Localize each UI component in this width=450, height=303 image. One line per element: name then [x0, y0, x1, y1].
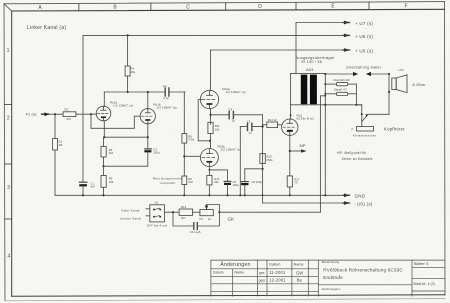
headphone jack P1 Klinkenstecker — [352, 126, 406, 137]
triode V2 (Rö1b 1/2 12BH7) — [140, 102, 177, 123]
net GK feedback line — [219, 212, 320, 221]
triode V3 (Rö2 1/2 12BH7) — [200, 87, 245, 109]
svg-text:Umschaltung Kabel: Umschaltung Kabel — [346, 65, 381, 69]
wire V3b grid — [184, 155, 200, 157]
node V1 cathode junction — [103, 136, 105, 138]
triode V1 (Rö1a 1/2 12BH7) — [96, 100, 133, 120]
svg-text:C2: C2 — [163, 84, 167, 88]
svg-text:Rest Komponenten: Rest Komponenten — [153, 176, 182, 180]
wire V3b cathode to R10 — [208, 166, 210, 175]
svg-text:Strom an Kontakte: Strom an Kontakte — [342, 157, 373, 161]
svg-text:+ U5 (s): + U5 (s) — [355, 49, 373, 54]
column labels A-F — [38, 3, 407, 10]
node attenuator junction — [355, 104, 357, 106]
svg-text:100µ: 100µ — [153, 151, 160, 155]
node V3b grid junction — [183, 155, 185, 157]
node R9 gnd junction — [183, 194, 185, 196]
svg-text:1k8: 1k8 — [109, 180, 114, 184]
svg-text:2: 2 — [7, 116, 10, 122]
node speaker bottom junction — [388, 91, 390, 93]
svg-text:LS1: LS1 — [399, 68, 405, 72]
wire R8 to grid node — [183, 143, 185, 176]
svg-text:Ba: Ba — [297, 278, 303, 283]
svg-text:75: 75 — [294, 181, 298, 185]
svg-text:270k: 270k — [188, 138, 195, 142]
wire C5 left to GND — [239, 127, 241, 196]
wire V2 cathode — [147, 124, 149, 138]
svg-text:Name: Name — [294, 262, 304, 266]
svg-text:1/2 12BH7 (a): 1/2 12BH7 (a) — [113, 104, 133, 108]
svg-text:1M: 1M — [59, 143, 64, 147]
svg-text:11-2001: 11-2001 — [269, 270, 286, 275]
node V3 cathode tap — [209, 114, 211, 116]
resistor R17 cathode — [287, 176, 300, 187]
svg-text:4: 4 — [8, 254, 11, 260]
title block texts — [213, 260, 435, 291]
wire V1 anode — [103, 92, 105, 107]
wire R17 to GND — [289, 187, 291, 195]
column ticks — [79, 2, 369, 11]
wire jack tip feed — [356, 105, 361, 127]
svg-text:C5: C5 — [247, 119, 251, 123]
svg-text:100µ: 100µ — [233, 183, 240, 187]
node secondary bottom junction — [324, 104, 326, 106]
svg-text:Name: Name — [235, 271, 245, 275]
capacitor C6 bypass — [224, 180, 239, 196]
svg-text:C: C — [186, 4, 190, 10]
svg-text:linker Kanal: linker Kanal — [121, 208, 140, 212]
wire anode bus — [104, 91, 165, 93]
note HP Messpunkt — [337, 151, 373, 161]
svg-text:P: P — [352, 127, 354, 131]
svg-text:GK: GK — [228, 217, 236, 222]
row ticks — [4, 105, 11, 220]
capacitor C8 — [241, 169, 262, 197]
svg-text:1/2 12BH7 (s): 1/2 12BH7 (s) — [221, 148, 241, 152]
svg-text:Endstufe: Endstufe — [323, 275, 343, 280]
switch line Umschaltung — [325, 65, 389, 76]
node R17 gnd junction — [289, 194, 291, 196]
svg-text:4µ7: 4µ7 — [91, 185, 96, 189]
capacitor C11 parallel — [173, 212, 219, 234]
svg-text:2k2: 2k2 — [214, 180, 219, 184]
svg-text:Klinkenstecker: Klinkenstecker — [353, 134, 376, 138]
svg-text:gepr.: gepr. — [259, 278, 267, 282]
resistor R11 cathode — [208, 122, 220, 133]
resistor R9 grid leak lower — [182, 176, 193, 185]
resistor R8 grid leak upper — [182, 134, 195, 144]
wire R3 leads — [103, 137, 105, 166]
svg-text:+ U7 (s): + U7 (s) — [355, 21, 373, 26]
svg-text:Blatt-Nr. 4 (2): Blatt-Nr. 4 (2) — [414, 282, 435, 286]
svg-text:Änderungen: Änderungen — [220, 261, 250, 268]
svg-text:rechter Kanal: rechter Kanal — [120, 217, 141, 221]
svg-text:F: F — [404, 3, 407, 9]
node cathode MP junction — [289, 150, 291, 152]
resistor R19 secondary — [325, 88, 356, 96]
transformer AÜ1 — [291, 73, 362, 104]
triode V4 (Rö3 6C33c-B) — [282, 113, 314, 135]
svg-text:150k: 150k — [267, 158, 274, 162]
triode V3b (Rö2b 1/2 12BH7 SRPP) — [200, 144, 240, 166]
svg-text:2k2: 2k2 — [215, 127, 220, 131]
svg-text:Blätter: 5: Blätter: 5 — [414, 262, 428, 266]
resistor R14 grid stopper — [263, 118, 282, 127]
resistor R3 cathode V1 — [101, 146, 114, 157]
resistor R12 feedback — [179, 205, 193, 220]
node R15 bottom junction — [262, 168, 264, 170]
svg-text:R2: R2 — [65, 108, 69, 112]
node V2 cathode junction — [147, 136, 149, 138]
wire S1 to R12 — [164, 211, 179, 213]
title block grid — [211, 260, 445, 296]
svg-text:4k7: 4k7 — [181, 216, 186, 220]
svg-text:+ U6 (s): + U6 (s) — [355, 34, 373, 39]
svg-text:Datum: Datum — [269, 262, 280, 266]
node secondary gnd junction — [324, 194, 326, 196]
transformer AÜ1 labels — [296, 55, 336, 72]
wire speaker return — [388, 92, 390, 114]
svg-text:Dämpf. 4,7: Dämpf. 4,7 — [334, 88, 348, 92]
resistor R5 — [101, 175, 114, 187]
capacitor C3 cathode bypass — [144, 137, 159, 166]
wire V3 cathode signal out — [211, 114, 230, 116]
resistor R10 — [207, 175, 220, 185]
svg-text:gez.: gez. — [259, 271, 265, 275]
svg-text:P1: P1 — [200, 217, 204, 221]
wire S1 stubs — [146, 209, 150, 216]
wire C8 branch — [245, 168, 263, 170]
node feedback junction left — [172, 211, 174, 213]
svg-text:EI 130 / 46: EI 130 / 46 — [302, 60, 323, 64]
wire V3 anode to U5 — [210, 50, 212, 91]
svg-text:Ausgangsübertrager: Ausgangsübertrager — [296, 55, 336, 60]
switch S1 DIP — [147, 200, 168, 227]
wire R5 leads — [103, 166, 105, 195]
net +U6 rail — [83, 34, 373, 39]
measure point MP arrow — [290, 143, 307, 153]
svg-text:MP: MP — [300, 143, 306, 148]
wire V3a grid to SRPP midpoint — [198, 100, 210, 141]
svg-text:D: D — [258, 4, 262, 10]
svg-text:GW: GW — [296, 271, 303, 276]
resistor R18 secondary — [325, 78, 356, 86]
resistor R1 — [53, 114, 63, 195]
svg-text:C4: C4 — [229, 107, 233, 111]
svg-text:Linker Kanal (a): Linker Kanal (a) — [27, 25, 66, 31]
svg-text:1µ: 1µ — [249, 130, 253, 134]
svg-text:F1 (a): F1 (a) — [26, 112, 37, 116]
wire V1 cathode — [103, 121, 105, 137]
svg-text:Zeichnungsnr.: Zeichnungsnr. — [322, 287, 341, 291]
wire U6 rail left drop — [82, 35, 84, 181]
svg-text:1: 1 — [7, 48, 10, 54]
wire cathode bus — [104, 136, 148, 138]
svg-text:GND: GND — [355, 194, 366, 199]
wire R10 to GND — [208, 185, 210, 195]
svg-text:DIP Sw 4 pol: DIP Sw 4 pol — [147, 224, 168, 228]
resistor R4 anode load — [125, 34, 136, 93]
node SRPP midpoint junction — [209, 140, 211, 142]
svg-text:0,1µ: 0,1µ — [163, 96, 169, 100]
node feedback junction right — [218, 211, 220, 213]
wire secondary gnd drop — [324, 105, 326, 196]
wire feedback GK drop — [320, 96, 325, 212]
node speaker top junction — [388, 73, 390, 75]
svg-text:46k: 46k — [131, 70, 136, 74]
svg-text:Bezeichnung: Bezeichnung — [322, 260, 340, 264]
wire C2 to R8 — [183, 92, 185, 134]
wire V4 anode — [290, 105, 292, 119]
note kanal labels — [120, 208, 141, 220]
potentiometer P1 — [200, 205, 220, 222]
wire bypass branch — [209, 170, 227, 181]
svg-text:C8 100µ: C8 100µ — [252, 180, 263, 184]
node secondary tap junctions — [324, 83, 326, 85]
svg-text:- U01 (s): - U01 (s) — [354, 201, 373, 206]
node gnd crossing blob — [262, 194, 264, 196]
capacitor C2 coupling — [163, 84, 185, 100]
svg-text:C11 1µ5: C11 1µ5 — [190, 230, 201, 234]
wire speaker leads — [388, 74, 390, 92]
capacitor C4 coupling — [229, 107, 263, 122]
corner diagonal — [4, 4, 12, 11]
svg-text:3: 3 — [7, 185, 10, 191]
net +U5 rail — [211, 48, 374, 53]
svg-text:Datum: Datum — [213, 271, 224, 275]
node grid node junction — [262, 125, 264, 127]
svg-text:2k2: 2k2 — [188, 180, 193, 184]
svg-text:Kopfhörer: Kopfhörer — [384, 126, 405, 131]
capacitor C5 — [247, 119, 263, 134]
svg-text:8 Ohm: 8 Ohm — [413, 82, 426, 87]
jack switch arm — [361, 113, 389, 121]
node C1 gnd junction — [82, 194, 84, 196]
node C5 gnd junction — [239, 194, 241, 196]
node R5 gnd junction — [102, 194, 104, 196]
node V1 grid junction — [90, 113, 92, 115]
svg-text:2k2: 2k2 — [109, 151, 114, 155]
wire U7 to transformer primary — [295, 23, 297, 74]
svg-text:12-2001: 12-2001 — [269, 278, 286, 283]
resistor R2 — [63, 108, 76, 121]
node cathode bypass junction — [209, 169, 211, 171]
wire input — [49, 113, 64, 115]
svg-text:RV6/9beck Röhrenschaltung 6C33: RV6/9beck Röhrenschaltung 6C33C — [323, 267, 403, 272]
wire C5 branch — [240, 126, 247, 128]
note: Rest Komponenten entspricht — [153, 176, 182, 185]
svg-text:R12: R12 — [181, 205, 187, 209]
svg-text:HP: Meßpunkt für: HP: Meßpunkt für — [337, 151, 367, 155]
wire V2 anode — [147, 92, 149, 109]
net GND rail — [55, 193, 366, 198]
svg-text:R14 1k: R14 1k — [268, 118, 277, 122]
svg-text:entspricht: entspricht — [160, 181, 175, 185]
wire cathode lower bus — [104, 165, 148, 167]
wire grid detour V1 to V2 — [91, 114, 140, 128]
input terminal F1 — [26, 112, 49, 116]
svg-text:1/2 12BH7 (s): 1/2 12BH7 (s) — [226, 90, 246, 94]
wire attenuator join — [355, 84, 357, 105]
wire R11 to V3b anode — [210, 134, 212, 149]
svg-text:S1: S1 — [155, 200, 159, 204]
node input junction — [54, 113, 56, 115]
svg-text:47k: 47k — [67, 117, 72, 121]
wire V4 cathode — [289, 135, 291, 176]
net -U01 rail — [263, 201, 373, 206]
node R10 gnd junction — [208, 194, 210, 196]
svg-text:1µ: 1µ — [232, 119, 236, 123]
loudspeaker LS1 8 Ohm — [392, 68, 426, 93]
svg-text:AÜ1: AÜ1 — [306, 67, 315, 72]
svg-text:6C33c-B (s): 6C33c-B (s) — [297, 117, 314, 121]
wire R9 to GND — [183, 185, 185, 196]
node V2 anode junction — [147, 91, 149, 93]
svg-text:1/2 12BH7 (a): 1/2 12BH7 (a) — [157, 106, 177, 110]
wire grid node vertical — [262, 115, 264, 203]
wire R2 to V1 grid — [76, 113, 96, 115]
wire R12 to P1 — [193, 211, 200, 213]
resistor R15 — [260, 154, 273, 164]
net +U7 rail — [296, 21, 373, 26]
row labels 1-4 — [7, 48, 11, 260]
capacitor C1 — [79, 181, 95, 195]
wire V3 cathode — [210, 109, 212, 125]
svg-text:Abschluß 220: Abschluß 220 — [333, 78, 350, 82]
node R3 bottom junction — [102, 165, 104, 167]
